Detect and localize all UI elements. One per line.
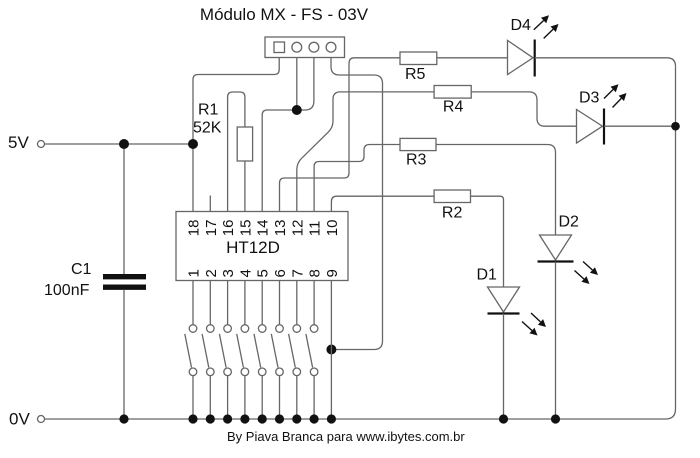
wire pin13 to R5 <box>280 58 401 212</box>
svg-text:5: 5 <box>255 269 272 277</box>
node 5V-C1 junction <box>119 139 129 149</box>
svg-text:8: 8 <box>307 269 324 277</box>
wire connector pin2 to DIN junction <box>296 58 298 111</box>
D4 light arrow 2 <box>544 24 559 38</box>
wire D1 cathode to 0V rail <box>503 314 505 420</box>
wire R3 to D2 <box>436 145 556 236</box>
node DIN junction <box>292 105 302 115</box>
svg-text:D1: D1 <box>477 267 498 284</box>
switch S6 on pin 6 <box>271 281 284 424</box>
wire D3 cathode to right rail <box>604 125 676 127</box>
svg-text:12: 12 <box>289 220 306 237</box>
svg-text:11: 11 <box>307 221 324 237</box>
svg-text:16: 16 <box>220 220 237 237</box>
wire pin18 VDD to 5V rail and connector pin1 <box>193 58 279 212</box>
svg-text:15: 15 <box>237 220 254 237</box>
wire pin12 to R4 <box>297 92 434 212</box>
switch S1 on pin 1 <box>185 281 198 424</box>
svg-text:5V: 5V <box>8 133 29 152</box>
0V terminal <box>9 409 45 428</box>
wire D2 cathode to 0V rail <box>555 262 557 420</box>
switch S5 on pin 5 <box>254 281 267 424</box>
svg-text:0V: 0V <box>9 409 30 428</box>
wire R4 to D3 <box>471 92 576 126</box>
wire connector pin4 to ground <box>331 58 383 350</box>
LED D3 <box>577 89 605 144</box>
wire DIN junction to pin14 <box>262 110 297 212</box>
wire C1 upper lead <box>123 144 125 274</box>
wire pin17 VT stub <box>209 196 211 212</box>
switch S3 on pin 3 <box>219 281 232 424</box>
svg-text:R1: R1 <box>198 102 219 119</box>
svg-text:52K: 52K <box>193 120 222 137</box>
resistor R1 52K <box>193 102 253 162</box>
svg-text:Módulo MX - FS - 03V: Módulo MX - FS - 03V <box>200 5 369 24</box>
node pin9 ground junction <box>326 345 336 355</box>
node pin9-0V junction <box>327 414 336 423</box>
wire pin15 lead <box>244 161 246 212</box>
wire connector pin3 to DIN junction <box>297 58 314 111</box>
svg-text:D4: D4 <box>511 17 532 34</box>
svg-text:R5: R5 <box>405 66 426 83</box>
switch S4 on pin 4 <box>237 281 250 424</box>
connector J1 module header <box>265 37 345 58</box>
svg-text:7: 7 <box>289 269 306 277</box>
svg-text:1: 1 <box>186 269 203 277</box>
resistor R2 <box>434 190 470 222</box>
D3 light arrow 2 <box>613 93 627 108</box>
LED D1 <box>477 267 520 314</box>
svg-text:100nF: 100nF <box>44 282 90 299</box>
wire pin10 to R2 <box>331 196 434 211</box>
svg-text:R2: R2 <box>442 205 463 222</box>
svg-text:4: 4 <box>237 269 254 277</box>
wire right rail to 0V <box>666 66 676 419</box>
D4 light arrow 1 <box>534 15 549 29</box>
wire C1 lower lead <box>123 290 125 419</box>
capacitor C1 <box>44 261 146 299</box>
svg-text:9: 9 <box>324 269 341 277</box>
D2 light arrow 2 <box>575 271 590 285</box>
svg-text:D3: D3 <box>579 89 600 106</box>
node 5V-VDD junction <box>188 139 198 149</box>
svg-text:3: 3 <box>220 269 237 277</box>
svg-text:17: 17 <box>203 220 220 237</box>
op-amp U1 HT12D IC body <box>176 212 348 281</box>
svg-text:14: 14 <box>255 220 272 237</box>
node D3 right-rail junction <box>671 122 680 131</box>
5V terminal <box>8 133 45 152</box>
svg-text:By Piava Branca para www.ibyte: By Piava Branca para www.ibytes.com.br <box>227 429 465 444</box>
wire 0V rail <box>45 418 666 420</box>
D1 light arrow 2 <box>522 322 538 336</box>
node D2-0V junction <box>551 414 560 423</box>
node C1-0V junction <box>119 414 128 423</box>
node D1-0V junction <box>499 414 508 423</box>
svg-text:D2: D2 <box>559 214 580 231</box>
wire R5 to D4 <box>437 57 508 59</box>
resistor R4 <box>434 86 471 116</box>
svg-text:C1: C1 <box>71 261 92 278</box>
wire 5V rail <box>45 143 194 145</box>
switch S7 on pin 7 <box>289 281 302 424</box>
resistor R3 <box>400 138 436 168</box>
svg-text:10: 10 <box>324 220 341 237</box>
svg-text:2: 2 <box>203 269 220 277</box>
wire pin11 to R3 <box>314 145 400 212</box>
LED D2 <box>538 214 580 262</box>
svg-text:HT12D: HT12D <box>226 238 280 257</box>
svg-text:R4: R4 <box>443 99 464 116</box>
wire D4 cathode to right rail <box>535 58 676 67</box>
D3 light arrow 1 <box>604 84 619 98</box>
D1 light arrow 1 <box>531 313 546 327</box>
svg-text:18: 18 <box>186 220 203 237</box>
LED D4 <box>508 17 535 77</box>
svg-text:13: 13 <box>272 220 289 237</box>
svg-text:R3: R3 <box>406 152 427 169</box>
switch S2 on pin 2 <box>202 281 215 424</box>
switch S8 on pin 8 <box>306 281 319 424</box>
svg-text:6: 6 <box>272 269 289 277</box>
wire R2 to D1 <box>471 196 504 287</box>
wire R1 top to pin16 <box>228 92 245 212</box>
D2 light arrow 1 <box>583 262 598 276</box>
wire pin9 VSS to 0V rail <box>330 281 332 420</box>
resistor R5 <box>400 52 437 83</box>
